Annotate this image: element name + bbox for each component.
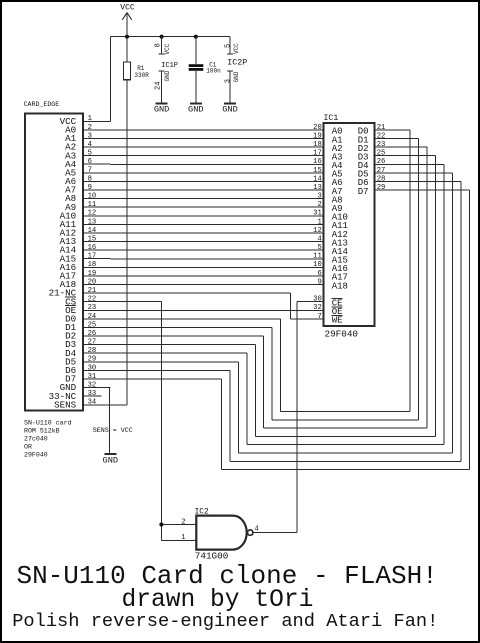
svg-text:18: 18 [88,261,97,269]
svg-text:5: 5 [317,244,321,252]
svg-text:4: 4 [255,526,259,534]
svg-text:9: 9 [88,184,92,192]
svg-text:27c040: 27c040 [24,436,48,443]
svg-text:13: 13 [88,218,97,226]
svg-text:33: 33 [88,390,97,398]
svg-text:34: 34 [88,399,97,407]
svg-text:12: 12 [313,227,322,235]
svg-text:19: 19 [313,132,322,140]
svg-text:3: 3 [224,79,232,83]
svg-text:15: 15 [88,236,97,244]
svg-text:Polish reverse-engineer and At: Polish reverse-engineer and Atari Fan! [12,610,438,632]
svg-text:32: 32 [313,304,322,312]
svg-text:6: 6 [317,270,321,278]
svg-text:3: 3 [88,132,92,140]
svg-text:1: 1 [317,218,321,226]
svg-text:SN-U110 card: SN-U110 card [24,419,72,426]
svg-text:20: 20 [313,124,322,132]
svg-text:22: 22 [377,132,386,140]
svg-text:SENS = VCC: SENS = VCC [93,427,133,435]
svg-text:7: 7 [317,313,321,321]
svg-text:18: 18 [313,141,322,149]
svg-text:8: 8 [88,175,92,183]
svg-text:1: 1 [88,115,92,123]
svg-text:ROM 512kB: ROM 512kB [24,427,60,434]
svg-text:22: 22 [88,296,97,304]
svg-text:A18: A18 [332,281,348,291]
svg-text:23: 23 [377,141,386,149]
svg-text:21: 21 [377,124,386,132]
svg-text:23: 23 [88,304,97,312]
svg-text:GND: GND [222,105,237,115]
svg-text:5: 5 [88,150,92,158]
svg-text:4: 4 [317,236,321,244]
svg-text:20: 20 [88,278,97,286]
svg-text:4: 4 [88,141,92,149]
svg-text:24: 24 [155,82,163,90]
svg-text:8: 8 [155,43,163,47]
svg-text:25: 25 [377,150,386,158]
svg-text:30: 30 [313,296,322,304]
svg-text:12: 12 [88,210,97,218]
svg-text:27: 27 [377,167,386,175]
svg-text:11: 11 [88,201,97,209]
svg-text:2: 2 [317,201,321,209]
svg-text:16: 16 [313,158,322,166]
svg-text:31: 31 [313,210,322,218]
svg-text:29F040: 29F040 [325,328,358,339]
svg-text:24: 24 [88,313,97,321]
svg-text:GND: GND [103,456,118,466]
svg-text:32: 32 [88,382,97,390]
svg-text:VCC: VCC [164,43,171,54]
svg-text:29: 29 [88,356,97,364]
svg-text:GND: GND [164,70,171,81]
svg-text:14: 14 [88,227,97,235]
svg-text:26: 26 [88,330,97,338]
svg-text:16: 16 [88,244,97,252]
svg-text:3: 3 [317,193,321,201]
svg-text:17: 17 [88,253,97,261]
svg-text:OR: OR [24,444,32,451]
svg-text:19: 19 [88,270,97,278]
svg-text:15: 15 [313,167,322,175]
svg-text:VCC: VCC [233,43,240,54]
svg-text:10: 10 [313,261,322,269]
svg-text:21: 21 [88,287,97,295]
svg-text:6: 6 [88,158,92,166]
svg-text:VCC: VCC [120,4,135,13]
svg-text:D7: D7 [358,187,369,197]
svg-text:17: 17 [313,150,322,158]
svg-text:IC1P: IC1P [161,62,178,70]
svg-text:2: 2 [181,518,185,526]
svg-text:27: 27 [88,339,97,347]
svg-text:29F040: 29F040 [24,452,48,459]
svg-text:CARD_EDGE: CARD_EDGE [24,101,60,108]
svg-text:10: 10 [88,193,97,201]
svg-text:GND: GND [154,105,169,115]
svg-text:2: 2 [88,124,92,132]
svg-text:IC1: IC1 [324,114,339,123]
svg-text:13: 13 [313,184,322,192]
svg-text:30: 30 [88,364,97,372]
svg-text:100n: 100n [206,68,221,75]
svg-text:GND: GND [233,71,240,82]
svg-text:WE: WE [332,316,343,326]
svg-text:29: 29 [377,184,386,192]
svg-text:7: 7 [88,167,92,175]
svg-text:11: 11 [313,253,322,261]
svg-text:28: 28 [88,347,97,355]
svg-text:SENS: SENS [54,399,77,410]
svg-text:28: 28 [377,175,386,183]
svg-text:14: 14 [313,175,322,183]
svg-text:31: 31 [88,373,97,381]
svg-text:9: 9 [317,278,321,286]
svg-text:R1: R1 [137,65,145,72]
svg-text:330R: 330R [134,72,149,79]
svg-text:5: 5 [224,44,232,48]
svg-text:26: 26 [377,158,386,166]
svg-text:25: 25 [88,321,97,329]
svg-text:IC2P: IC2P [227,58,247,67]
svg-text:GND: GND [188,105,203,115]
svg-text:1: 1 [181,534,185,542]
